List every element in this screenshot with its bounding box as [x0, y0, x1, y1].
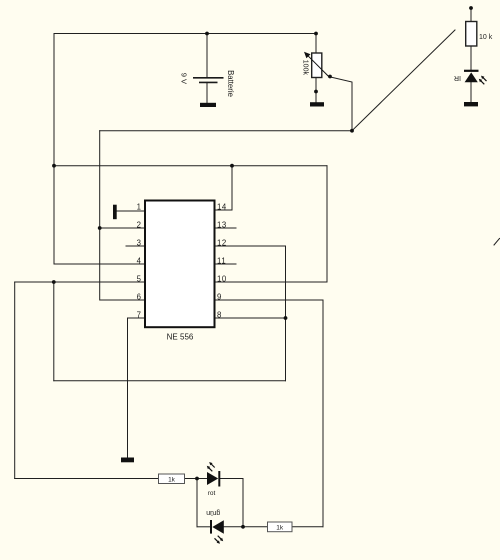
wire row2 mid [224, 526, 268, 528]
node pot wiper [328, 75, 332, 79]
wire left V+ vertical [53, 34, 55, 265]
resistor R3 1k body [268, 522, 293, 532]
node pin8 junction [284, 316, 288, 320]
pin numbers right [217, 203, 227, 320]
node 10k top terminal [469, 6, 473, 10]
wire lower horizontal net 5-8-12 [54, 380, 286, 382]
node V+ rail left [52, 164, 56, 168]
wire pin12 link [215, 246, 286, 381]
wire pin10 link [215, 166, 328, 282]
wire battery top [206, 34, 208, 78]
wire pot top [315, 34, 317, 54]
wire row1 mid [185, 478, 208, 480]
node pin2 junction [98, 226, 102, 230]
node wiper net corner [350, 129, 354, 133]
svg-text:rot: rot [208, 490, 216, 497]
potentiometer R 100k body [312, 53, 322, 78]
node pot top [314, 32, 318, 36]
node LED row2 junction [241, 525, 245, 529]
IR photodiode D1 [464, 71, 487, 85]
wire pot bottom to ground [315, 78, 317, 103]
svg-text:10 k: 10 k [479, 34, 493, 41]
svg-text:7: 7 [137, 311, 141, 320]
wire row1 left [15, 478, 159, 480]
svg-text:1k: 1k [276, 525, 284, 532]
wire row2 right [292, 526, 323, 528]
svg-text:4: 4 [137, 257, 142, 266]
wire top V+ rail [54, 33, 316, 35]
wire pin2 stub [100, 227, 145, 229]
svg-text:13: 13 [217, 221, 227, 230]
svg-text:14: 14 [217, 203, 227, 212]
wire row2 left [197, 526, 211, 528]
wire pin9 link [215, 300, 324, 527]
wire pot node to pin6 column [100, 130, 352, 132]
battery B1 plates [193, 78, 224, 83]
resistor R2 1k body [159, 474, 185, 484]
node V+ rail pin14 [230, 164, 234, 168]
wire pin5 branch vertical [53, 282, 55, 381]
wire IR LED to ground [470, 82, 472, 102]
svg-text:NE 556: NE 556 [167, 333, 194, 342]
svg-text:1k: 1k [168, 476, 176, 483]
wire pin5 left vertical [14, 282, 16, 479]
svg-text:8: 8 [217, 311, 222, 320]
wire battery bottom [206, 82, 208, 102]
resistor 10k body [466, 22, 477, 47]
wire pin5 row [15, 281, 145, 283]
svg-text:12: 12 [217, 239, 227, 248]
junction and pin dots [52, 6, 473, 529]
wire pin1 stub [117, 210, 145, 212]
wire pin7 to ground [128, 318, 146, 458]
wire row branch vertical [196, 479, 198, 527]
pin numbers left [137, 203, 142, 320]
wire 10k to IR LED [470, 46, 472, 70]
wire pin6 vertical [100, 131, 145, 300]
node battery top [205, 32, 209, 36]
ground potentiometer [310, 102, 324, 106]
svg-text:grün: grün [206, 509, 220, 516]
node LED row1 junction [195, 477, 199, 481]
svg-text:Batterie: Batterie [226, 70, 235, 97]
ground battery [200, 103, 216, 107]
potentiometer wiper arrow [304, 52, 329, 77]
LED gruen D3 [211, 520, 224, 544]
svg-text:6: 6 [137, 293, 141, 302]
wire pin14 link [215, 166, 233, 210]
wire pin13 stub [215, 227, 237, 229]
ground pin7 [121, 458, 134, 463]
node pin5 junction [52, 280, 56, 284]
IC U1 NE 556 body [145, 201, 215, 328]
wire diagonal node to IR sensor net [352, 30, 455, 131]
svg-text:9: 9 [217, 293, 222, 302]
wire pot wiper [331, 77, 353, 131]
wire pin11 stub [215, 263, 237, 265]
node pot bottom pin [314, 90, 318, 94]
svg-text:1: 1 [137, 203, 141, 212]
wire pin4 to V+ [54, 263, 145, 265]
wire pin8 stub [215, 317, 286, 319]
wire rail to pins 14 and 10 [54, 165, 327, 167]
svg-text:2: 2 [137, 221, 141, 230]
svg-text:9 V: 9 V [180, 73, 189, 84]
svg-text:5: 5 [137, 275, 142, 284]
wire edge stub bottom right [494, 239, 500, 246]
svg-text:3: 3 [137, 239, 141, 248]
terminal bar pin1 [113, 205, 117, 220]
wire 10k resistor top [470, 8, 472, 22]
svg-text:11: 11 [217, 257, 226, 266]
LED rot D2 [207, 462, 220, 487]
wire row1 right [219, 478, 243, 480]
svg-text:100k: 100k [302, 60, 309, 76]
ground IR diode [464, 102, 478, 106]
wire row1 down right [242, 479, 244, 527]
svg-text:10: 10 [217, 275, 227, 284]
wire pin3 stub [126, 245, 145, 247]
svg-text:IR: IR [454, 74, 461, 81]
